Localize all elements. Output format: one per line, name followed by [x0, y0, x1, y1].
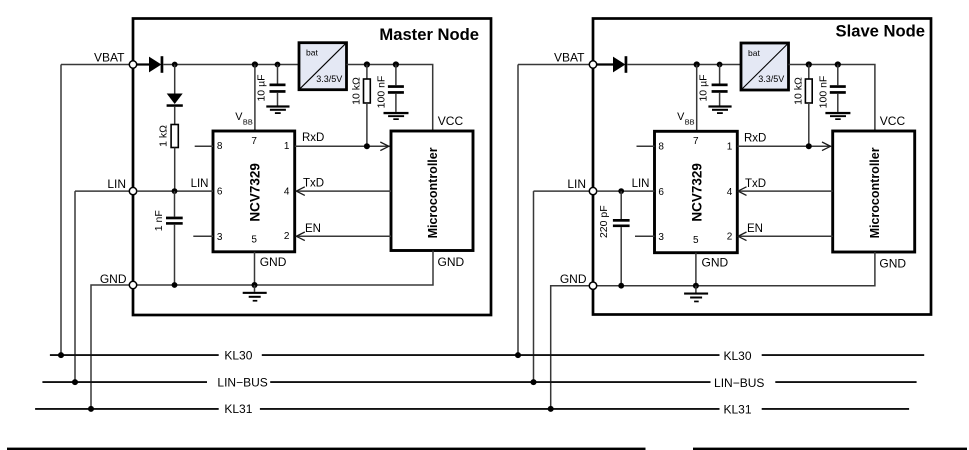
wire regulator out rail (master)	[347, 65, 433, 131]
svg-text:Microcontroller: Microcontroller	[868, 147, 882, 238]
regulator 3.3/5V (master)	[299, 43, 347, 90]
svg-text:LIN−BUS: LIN−BUS	[217, 376, 267, 390]
label RxD (slave)	[744, 132, 766, 144]
svg-text:LIN: LIN	[191, 178, 209, 190]
junction dot 100nF tap (master)	[393, 61, 399, 67]
bottom rule left	[7, 448, 646, 450]
svg-text:GND: GND	[100, 272, 127, 286]
arrow TxD into IC (master)	[296, 187, 305, 196]
svg-text:BB: BB	[243, 117, 253, 126]
junction dot 10uF tap (slave)	[717, 62, 723, 68]
svg-text:Microcontroller: Microcontroller	[426, 147, 440, 238]
pin 4 (slave)	[727, 187, 733, 198]
svg-text:5: 5	[251, 235, 257, 246]
label 10 uF (master)	[255, 74, 267, 101]
arrow EN into IC (slave)	[738, 232, 747, 241]
label VBB (slave)	[677, 111, 695, 126]
wire VBB drop (slave)	[696, 65, 698, 131]
IC NCV7329 box (master)	[213, 131, 295, 252]
junction dot KL31/slave	[548, 406, 554, 412]
svg-text:4: 4	[727, 187, 733, 198]
label VCC (slave)	[880, 114, 906, 128]
ground 10uF (master)	[266, 105, 289, 114]
resistor 10 kOhm body (slave)	[805, 79, 812, 103]
junction dot gnd/1nF (master)	[172, 282, 178, 288]
wire 10uF top (master)	[277, 65, 279, 84]
label EN (slave)	[747, 223, 763, 235]
microcontroller box (master)	[391, 131, 473, 251]
junction dot VBB tap (slave)	[694, 61, 700, 67]
label TxD (master)	[303, 178, 324, 190]
svg-text:3.3/5V: 3.3/5V	[758, 74, 784, 84]
pin 6 (slave)	[658, 187, 664, 198]
junction dot KL30/slave	[515, 352, 521, 358]
svg-text:EN: EN	[747, 223, 763, 235]
junction dot KL31/master	[88, 406, 94, 412]
wire GND feed (slave)	[551, 286, 590, 409]
wire LIN drop to LIN-BUS (slave)	[533, 191, 535, 382]
svg-text:1 kΩ: 1 kΩ	[158, 125, 170, 147]
svg-text:4: 4	[284, 187, 290, 198]
label LIN-BUS left	[217, 376, 267, 390]
wire 100nF top (master)	[395, 65, 397, 86]
wire 100nF top (slave)	[837, 65, 839, 86]
wire pin5 gnd stub (master)	[254, 285, 256, 292]
svg-text:100 nF: 100 nF	[375, 76, 387, 109]
wire MCU gnd drop (master)	[137, 251, 433, 286]
label GND under IC (slave)	[702, 256, 729, 270]
svg-text:8: 8	[658, 142, 664, 153]
junction dot VBB tap (master)	[252, 61, 258, 67]
svg-text:220 pF: 220 pF	[598, 205, 610, 238]
IC name NCV7329 (slave)	[690, 163, 705, 222]
wire resistor to LIN (master)	[174, 148, 176, 192]
pin 4 (master)	[284, 187, 290, 198]
label LIN outer (slave)	[567, 177, 586, 191]
wire 1nF bottom (master)	[174, 225, 176, 285]
svg-text:1: 1	[284, 141, 290, 152]
wire LIN to pin6 (slave)	[597, 190, 655, 192]
node LIN terminal circle (master)	[129, 187, 136, 194]
svg-text:bat: bat	[306, 48, 318, 58]
microcontroller text (master)	[426, 147, 440, 238]
slave node box	[593, 19, 931, 315]
junction dot 10k tap (master)	[364, 61, 370, 67]
wire RxD (slave)	[738, 145, 832, 147]
label 100 nF (slave)	[817, 76, 829, 109]
svg-text:6: 6	[217, 187, 223, 198]
svg-text:100 nF: 100 nF	[817, 76, 829, 109]
arrow EN into IC (master)	[296, 232, 305, 241]
wire LIN feed (master)	[75, 190, 129, 192]
label EN (master)	[305, 223, 321, 235]
label RxD (master)	[302, 132, 324, 144]
IC NCV7329 box (slave)	[655, 131, 738, 252]
junction dot RxD/10k (master)	[364, 143, 370, 149]
ground symbol pin5 (master)	[243, 292, 267, 302]
label VBAT (slave)	[554, 51, 585, 65]
node GND terminal circle (slave)	[589, 282, 596, 289]
wire regulator out rail (slave)	[789, 65, 875, 131]
ground symbol pin5 (slave)	[684, 293, 708, 303]
diode series D1 (slave)	[613, 56, 627, 73]
svg-text:7: 7	[693, 136, 699, 147]
stub pin 3 (slave)	[635, 235, 655, 237]
wire 10k to RxD (master)	[366, 103, 368, 146]
slave node title	[836, 22, 925, 41]
label VBAT (master)	[94, 51, 125, 65]
svg-text:7: 7	[251, 136, 257, 147]
label KL30 left	[224, 349, 252, 363]
svg-text:GND: GND	[260, 255, 287, 269]
capacitor 220 pF (slave)	[613, 219, 630, 227]
wire 1nF top (master)	[174, 191, 176, 217]
regulator 3.3/5V (slave)	[741, 43, 789, 90]
wire TxD (master)	[296, 190, 391, 192]
label 1 nF (master)	[153, 210, 165, 231]
wire VBAT rail (slave)	[627, 64, 740, 66]
wire LIN drop to LIN-BUS (master)	[74, 191, 76, 382]
svg-text:bat: bat	[748, 48, 760, 58]
arrow RxD into MCU (master)	[380, 142, 389, 151]
stub pin 8 (slave)	[637, 145, 655, 147]
label LIN-BUS right	[714, 376, 764, 390]
capacitor 100 nF (master)	[388, 85, 404, 94]
svg-text:2: 2	[284, 231, 290, 242]
junction dot LIN-BUS/master	[72, 379, 78, 385]
svg-text:VCC: VCC	[438, 114, 464, 128]
wire VBAT feed (master)	[61, 64, 129, 66]
label LIN inner (master)	[191, 178, 209, 190]
junction dot LIN/cap (slave)	[618, 188, 624, 194]
svg-text:3.3/5V: 3.3/5V	[316, 74, 342, 84]
wire 220pF top (slave)	[620, 191, 622, 219]
pin 8 (slave)	[658, 142, 664, 153]
svg-text:LIN−BUS: LIN−BUS	[714, 376, 764, 390]
pin 7 (slave)	[693, 136, 699, 147]
resistor 1 kOhm body (master)	[171, 125, 178, 148]
wire MCU gnd drop (slave)	[597, 252, 875, 286]
wire 10k top (slave)	[808, 65, 810, 80]
wire 10k to RxD (slave)	[808, 103, 810, 146]
wire VBAT feed (slave)	[518, 64, 589, 66]
ground 100nF (slave)	[825, 112, 850, 120]
label LIN inner (slave)	[632, 178, 650, 190]
wire EN (master)	[296, 235, 391, 237]
label 100 nF (master)	[375, 76, 387, 109]
label 1 kOhm	[158, 125, 170, 147]
wire LIN to pin6 (master)	[137, 190, 213, 192]
svg-text:EN: EN	[305, 223, 321, 235]
svg-text:10 kΩ: 10 kΩ	[792, 77, 804, 105]
wire pin5 gnd drop (slave)	[695, 253, 697, 286]
wire GND feed (master)	[91, 285, 129, 409]
junction dot 10k tap (slave)	[806, 61, 812, 67]
junction dot gnd/pin5 (slave)	[693, 283, 699, 289]
resistor 10 kOhm body (master)	[364, 79, 371, 103]
wire 100nF bottom (master)	[395, 94, 397, 112]
svg-text:1 nF: 1 nF	[153, 210, 165, 231]
svg-text:Slave Node: Slave Node	[836, 22, 925, 41]
wire pin5 gnd drop (master)	[254, 252, 256, 285]
svg-text:TxD: TxD	[303, 178, 324, 190]
svg-text:3: 3	[217, 232, 223, 243]
pin 3 (slave)	[658, 232, 664, 243]
svg-text:VBAT: VBAT	[554, 51, 585, 65]
svg-text:GND: GND	[560, 272, 587, 286]
label VBB (master)	[235, 111, 253, 126]
svg-text:GND: GND	[879, 257, 906, 271]
label KL31 left	[224, 402, 252, 416]
wire TxD (slave)	[738, 190, 833, 192]
wire EN (slave)	[738, 235, 833, 237]
wire 10uF bottom (master)	[277, 93, 279, 106]
diode series D1 (master)	[149, 56, 163, 73]
wire VBB drop (master)	[254, 65, 256, 131]
node GND terminal circle (master)	[129, 281, 136, 288]
svg-text:10 µF: 10 µF	[255, 74, 267, 101]
svg-text:LIN: LIN	[567, 177, 586, 191]
wire 10k top (master)	[366, 65, 368, 80]
pin 1 (slave)	[727, 142, 733, 153]
capacitor 10 uF (master)	[270, 84, 286, 93]
svg-text:BB: BB	[685, 117, 695, 126]
svg-text:RxD: RxD	[302, 132, 324, 144]
wire RxD (master)	[295, 145, 390, 147]
junction dot gnd/220pF (slave)	[618, 283, 624, 289]
label GND outer (master)	[100, 272, 127, 286]
svg-text:8: 8	[217, 141, 223, 152]
svg-text:KL31: KL31	[224, 402, 252, 416]
pin 8 (master)	[217, 141, 223, 152]
label 220 pF (slave)	[598, 205, 610, 238]
arrow TxD into IC (slave)	[738, 187, 747, 196]
svg-text:3: 3	[658, 232, 664, 243]
node LIN terminal circle (slave)	[589, 187, 596, 194]
wire to zener (master)	[174, 65, 176, 94]
svg-text:KL30: KL30	[224, 349, 252, 363]
svg-text:NCV7329: NCV7329	[690, 163, 705, 222]
arrow RxD into MCU (slave)	[822, 142, 831, 151]
label GND outer (slave)	[560, 272, 587, 286]
capacitor 10 uF (slave)	[712, 84, 728, 93]
master node title	[379, 25, 479, 44]
IC name NCV7329 (master)	[248, 163, 263, 222]
wire 10uF top (slave)	[719, 65, 721, 84]
svg-text:LIN: LIN	[107, 177, 126, 191]
wire 10uF bottom (slave)	[719, 93, 721, 106]
svg-text:VCC: VCC	[880, 114, 906, 128]
pin 2 (master)	[284, 231, 290, 242]
junction dot LIN/cap (master)	[172, 188, 178, 194]
label 10 kOhm (master)	[350, 77, 362, 105]
stub pin 8 (master)	[195, 145, 213, 147]
ground 100nF (master)	[384, 112, 409, 120]
junction dot gnd/pin5 (master)	[252, 282, 258, 288]
pin 5 (master)	[251, 235, 257, 246]
diode vertical D2 (master)	[167, 94, 183, 107]
stub pin 3 (master)	[193, 235, 213, 237]
pin 2 (slave)	[727, 232, 733, 243]
node VBAT terminal circle (slave)	[589, 61, 596, 68]
junction dot KL30/master	[58, 352, 64, 358]
svg-text:KL31: KL31	[723, 403, 751, 417]
svg-text:6: 6	[658, 187, 664, 198]
master node box	[133, 19, 491, 316]
wire VBAT drop to KL30 (master)	[60, 65, 62, 356]
wire VBAT rail (master)	[163, 64, 298, 66]
label GND under MCU (slave)	[879, 257, 906, 271]
svg-text:1: 1	[727, 142, 733, 153]
wire LIN feed (slave)	[534, 190, 590, 192]
svg-text:VBAT: VBAT	[94, 51, 125, 65]
junction dot LIN-BUS/slave	[531, 379, 537, 385]
label KL30 right	[723, 349, 751, 363]
svg-text:10 kΩ: 10 kΩ	[350, 77, 362, 105]
wire 220pF bottom (slave)	[620, 227, 622, 286]
bus KL31 wire segments	[35, 408, 909, 410]
label GND under IC (master)	[260, 255, 287, 269]
label 10 uF (slave)	[697, 74, 709, 101]
svg-text:GND: GND	[438, 255, 465, 269]
label LIN outer (master)	[107, 177, 126, 191]
pin 3 (master)	[217, 232, 223, 243]
label 10 kOhm (slave)	[792, 77, 804, 105]
node VBAT terminal circle (master)	[129, 61, 136, 68]
junction dot 10uF tap (master)	[275, 62, 281, 68]
wire 100nF bottom (slave)	[837, 94, 839, 112]
svg-text:LIN: LIN	[632, 178, 650, 190]
junction dot 100nF tap (slave)	[835, 61, 841, 67]
label TxD (slave)	[745, 178, 766, 190]
ground 10uF (slave)	[708, 105, 731, 114]
label KL31 right	[723, 403, 751, 417]
capacitor 100 nF (slave)	[830, 85, 846, 94]
svg-text:RxD: RxD	[744, 132, 766, 144]
pin 7 (master)	[251, 136, 257, 147]
svg-text:Master Node: Master Node	[379, 25, 479, 44]
label GND under MCU (master)	[438, 255, 465, 269]
svg-text:10 µF: 10 µF	[697, 74, 709, 101]
wire VBAT to diode (slave)	[597, 63, 613, 65]
svg-text:TxD: TxD	[745, 178, 766, 190]
wire zener to resistor (master)	[174, 107, 176, 125]
pin 5 (slave)	[693, 235, 699, 246]
svg-text:5: 5	[693, 235, 699, 246]
wire VBAT to diode (master)	[137, 63, 149, 65]
svg-text:KL30: KL30	[723, 349, 751, 363]
svg-text:NCV7329: NCV7329	[248, 163, 263, 222]
label VCC (master)	[438, 114, 464, 128]
capacitor 1 nF (master)	[166, 217, 183, 225]
wire VBAT drop to KL30 (slave)	[517, 65, 519, 356]
pin 6 (master)	[217, 187, 223, 198]
microcontroller box (slave)	[833, 131, 915, 252]
junction dot rail/zener branch (master)	[172, 62, 178, 68]
bus LIN-BUS wire segments	[42, 381, 916, 383]
bottom rule right	[693, 448, 967, 450]
wire pin5 gnd stub (slave)	[695, 286, 697, 293]
svg-text:GND: GND	[702, 256, 729, 270]
svg-text:2: 2	[727, 232, 733, 243]
junction dot RxD/10k (slave)	[806, 143, 812, 149]
pin 1 (master)	[284, 141, 290, 152]
bus KL30 wire segments	[50, 354, 924, 356]
microcontroller text (slave)	[868, 147, 882, 238]
